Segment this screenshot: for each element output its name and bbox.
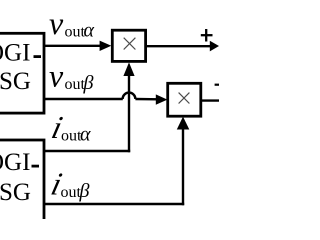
svg-text:SG: SG (0, 68, 31, 95)
block U1 SOGI-QSG (clipped at left) (0, 33, 44, 113)
arrowhead into M1 left (100, 41, 112, 51)
multiplier M1 box (112, 30, 145, 61)
wire hop over vertical i_outA line (123, 93, 136, 99)
wire M1 output to right edge (145, 45, 211, 47)
svg-text:out: out (65, 76, 86, 93)
svg-text:out: out (65, 24, 86, 41)
svg-text:out: out (61, 184, 82, 201)
block U2 SOGI-QSG (clipped at left and bottom) (0, 140, 44, 235)
svg-text:SG: SG (0, 179, 31, 206)
svg-text:OGI: OGI (0, 40, 30, 67)
svg-text:α: α (80, 124, 91, 146)
multiplier M2 x symbol (179, 93, 190, 104)
wire i_outA vertical up into M1 (128, 74, 130, 152)
wire i_outB horizontal from block U2 (44, 203, 184, 205)
plus sign at summer input (205, 29, 207, 42)
wire i_outB vertical up into M2 (182, 128, 184, 205)
arrowhead into M1 bottom (123, 62, 134, 76)
svg-text:β: β (79, 180, 90, 202)
svg-text:OGI: OGI (0, 149, 30, 176)
svg-text:v: v (49, 58, 64, 94)
svg-text:α: α (84, 20, 95, 42)
arrowhead at right edge (plus input of summer) (210, 41, 219, 52)
svg-text:β: β (83, 72, 94, 94)
svg-text:out: out (61, 128, 82, 145)
wire v_outB from block U1 toward multiplier M2 (44, 98, 123, 100)
wire i_outA horizontal from block U2 (44, 150, 130, 152)
svg-text:v: v (49, 5, 64, 41)
wire v_outB continues after hop (135, 98, 158, 101)
multiplier M2 box (168, 83, 201, 116)
arrowhead into M2 left (156, 94, 168, 104)
wire v_outA from block U1 to multiplier M1 (44, 45, 101, 47)
arrowhead into M2 bottom (177, 117, 190, 130)
minus sign at summer input (clipped at right edge) (215, 84, 221, 86)
multiplier M1 x symbol (124, 38, 136, 50)
wire M2 output to right edge (200, 99, 219, 101)
